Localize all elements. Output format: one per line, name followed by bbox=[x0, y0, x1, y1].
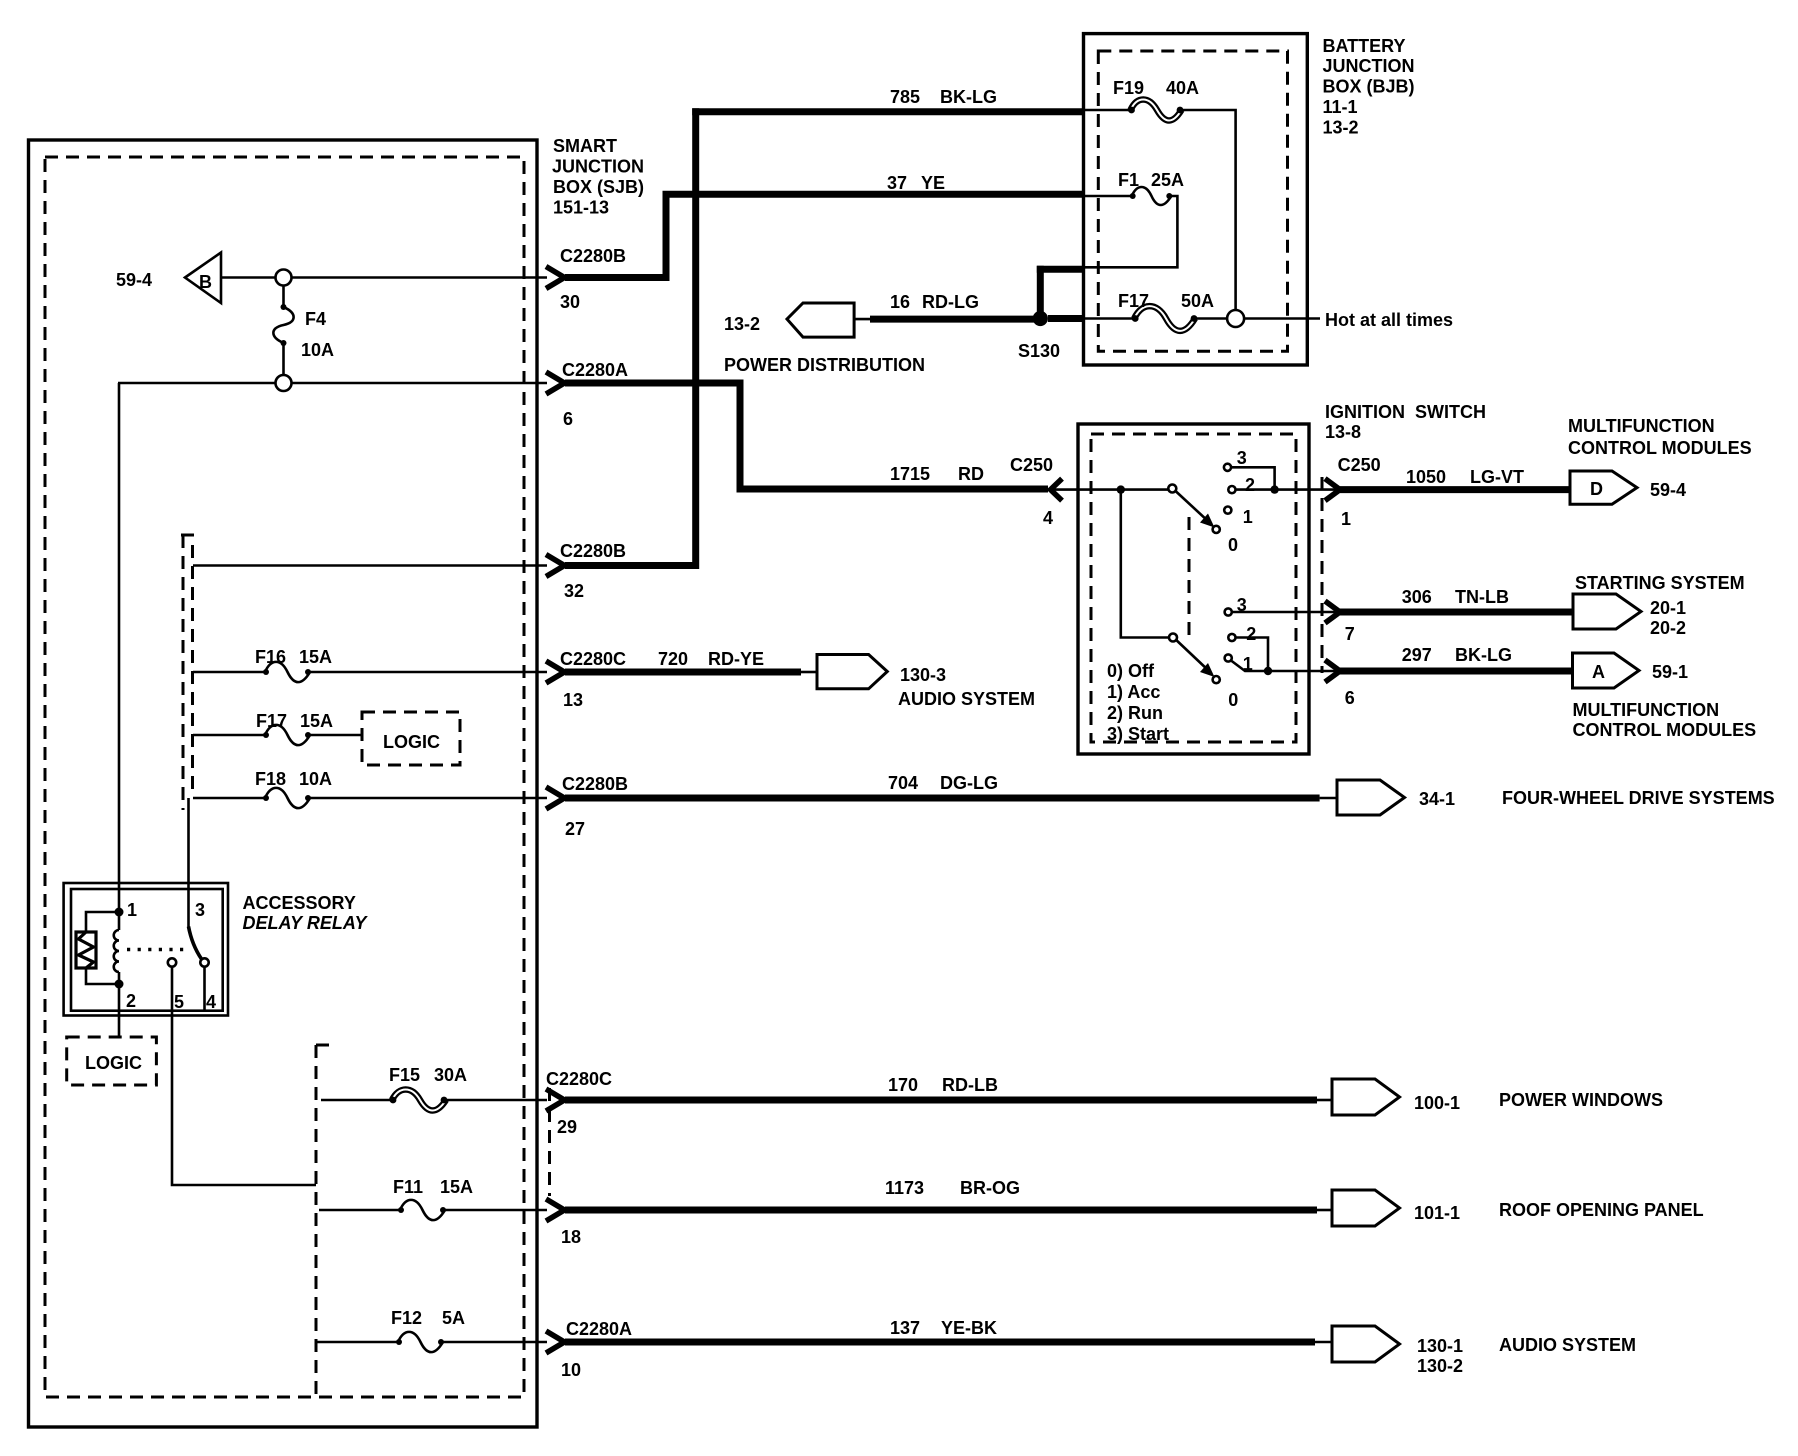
svg-text:F17: F17 bbox=[1118, 291, 1149, 311]
svg-text:LOGIC: LOGIC bbox=[383, 732, 440, 752]
wire S130 to BJB F1 return bbox=[1037, 266, 1084, 319]
svg-text:151-13: 151-13 bbox=[553, 198, 609, 218]
fuse F12 5A bbox=[316, 1308, 547, 1352]
BJB label bbox=[1323, 36, 1415, 138]
ignition switch outer box bbox=[1078, 424, 1309, 754]
svg-text:170: 170 bbox=[888, 1075, 918, 1095]
svg-text:Hot at all times: Hot at all times bbox=[1325, 310, 1453, 330]
svg-text:13-8: 13-8 bbox=[1325, 422, 1361, 442]
svg-text:3: 3 bbox=[195, 900, 205, 920]
ignition positions legend bbox=[1107, 661, 1169, 744]
svg-text:STARTING SYSTEM: STARTING SYSTEM bbox=[1575, 573, 1745, 593]
svg-text:704: 704 bbox=[888, 773, 918, 793]
svg-text:YE-BK: YE-BK bbox=[941, 1318, 997, 1338]
svg-text:1: 1 bbox=[1341, 509, 1351, 529]
SJB outer solid box bbox=[29, 140, 538, 1427]
svg-text:130-2: 130-2 bbox=[1417, 1356, 1463, 1376]
svg-text:2: 2 bbox=[1245, 475, 1255, 495]
svg-text:1715: 1715 bbox=[890, 464, 930, 484]
svg-text:1050: 1050 bbox=[1406, 467, 1446, 487]
upper contact 1 bbox=[1224, 507, 1253, 528]
connector 34-1 four wheel drive pentagon bbox=[1337, 780, 1775, 815]
connector C2280B pin 27 bbox=[546, 774, 628, 839]
svg-text:13-2: 13-2 bbox=[724, 314, 760, 334]
svg-text:F18: F18 bbox=[255, 769, 286, 789]
svg-text:C2280B: C2280B bbox=[562, 774, 628, 794]
svg-text:59-4: 59-4 bbox=[116, 270, 152, 290]
relay resistor branch bbox=[76, 912, 119, 984]
wire node to C2280B pin30 bbox=[292, 276, 548, 279]
svg-text:C2280C: C2280C bbox=[560, 649, 626, 669]
svg-text:C2280B: C2280B bbox=[560, 541, 626, 561]
wire hot at all times bbox=[1244, 310, 1453, 330]
wire 37 YE thick bbox=[565, 173, 1084, 281]
connector 101-1 roof opening panel pentagon bbox=[1332, 1190, 1704, 1226]
svg-text:LG-VT: LG-VT bbox=[1470, 467, 1524, 487]
wire 785 BK-LG thick bbox=[565, 87, 1084, 569]
svg-text:59-4: 59-4 bbox=[1650, 480, 1686, 500]
svg-text:C250: C250 bbox=[1338, 455, 1381, 475]
lower contact 2 bbox=[1228, 624, 1256, 644]
fuse F1 25A bbox=[1084, 170, 1184, 205]
svg-text:RD-LG: RD-LG bbox=[922, 292, 979, 312]
svg-text:16: 16 bbox=[890, 292, 910, 312]
svg-text:F11: F11 bbox=[393, 1177, 423, 1197]
svg-text:3) Start: 3) Start bbox=[1107, 724, 1169, 744]
fuse F19 40A bbox=[1084, 78, 1199, 121]
lower contact 0 bbox=[1213, 676, 1239, 710]
wire 1173 BR-OG thick bbox=[565, 1178, 1332, 1210]
connector A pentagon bbox=[1573, 653, 1689, 688]
svg-text:1173: 1173 bbox=[885, 1178, 924, 1198]
connector pin 18 bbox=[546, 1199, 581, 1247]
wire 16 RD-LG thick bbox=[854, 292, 1036, 319]
svg-text:AUDIO SYSTEM: AUDIO SYSTEM bbox=[1499, 1335, 1636, 1355]
svg-text:32: 32 bbox=[564, 581, 584, 601]
SJB internal dashed bus lines bbox=[181, 535, 197, 810]
svg-text:BR-OG: BR-OG bbox=[960, 1178, 1020, 1198]
connector C2280C pin 29 bbox=[546, 1069, 612, 1196]
svg-text:JUNCTION: JUNCTION bbox=[1323, 56, 1415, 76]
svg-text:59-1: 59-1 bbox=[1652, 662, 1688, 682]
svg-text:LOGIC: LOGIC bbox=[85, 1053, 142, 1073]
svg-text:S130: S130 bbox=[1018, 341, 1060, 361]
svg-text:297: 297 bbox=[1402, 645, 1432, 665]
svg-text:720: 720 bbox=[658, 649, 688, 669]
fuse F18 10A bbox=[193, 769, 547, 808]
svg-text:CONTROL MODULES: CONTROL MODULES bbox=[1573, 720, 1757, 740]
svg-text:B: B bbox=[199, 272, 212, 292]
svg-text:7: 7 bbox=[1345, 624, 1355, 644]
svg-text:RD-LB: RD-LB bbox=[942, 1075, 998, 1095]
svg-text:20-2: 20-2 bbox=[1650, 618, 1686, 638]
LOGIC box upper bbox=[362, 712, 460, 765]
connector C250 entry bbox=[1010, 455, 1062, 528]
ring terminal bbox=[1227, 310, 1244, 327]
svg-text:SMART: SMART bbox=[553, 136, 617, 156]
svg-text:FOUR-WHEEL DRIVE SYSTEMS: FOUR-WHEEL DRIVE SYSTEMS bbox=[1502, 788, 1775, 808]
battery junction box inner dashed bbox=[1098, 51, 1287, 351]
svg-text:ACCESSORY: ACCESSORY bbox=[243, 893, 356, 913]
connector C2280B pin 32 bbox=[546, 541, 626, 601]
svg-text:MULTIFUNCTION: MULTIFUNCTION bbox=[1573, 700, 1720, 720]
SJB inner dashed box bbox=[45, 157, 524, 1397]
connector triangle B bbox=[185, 253, 221, 304]
svg-text:100-1: 100-1 bbox=[1414, 1093, 1460, 1113]
svg-text:DG-LG: DG-LG bbox=[940, 773, 998, 793]
svg-text:C2280A: C2280A bbox=[566, 1319, 632, 1339]
connector C2280A pin 6 bbox=[546, 360, 628, 429]
wire 306 TN-LB thick bbox=[1340, 587, 1576, 612]
svg-text:IGNITION SWITCH: IGNITION SWITCH bbox=[1325, 402, 1486, 422]
wire relay pin2 to LOGIC bbox=[118, 984, 121, 1037]
wire F18 junction down to relay pin 3 bbox=[187, 798, 190, 927]
svg-text:15A: 15A bbox=[300, 711, 333, 731]
wire contact2 out bbox=[1236, 488, 1341, 491]
svg-text:ROOF OPENING PANEL: ROOF OPENING PANEL bbox=[1499, 1200, 1704, 1220]
wire vertical to relay pin 1 bbox=[118, 383, 121, 912]
svg-text:A: A bbox=[1592, 662, 1605, 682]
svg-text:5: 5 bbox=[174, 992, 184, 1012]
lower switch arm bbox=[1176, 640, 1214, 677]
svg-text:3: 3 bbox=[1237, 448, 1247, 468]
fuse group dashed box bbox=[316, 1045, 330, 1395]
SJB label bbox=[552, 136, 644, 218]
svg-text:C2280A: C2280A bbox=[562, 360, 628, 380]
lower contact 3 bbox=[1225, 595, 1247, 616]
splice S130 bbox=[1018, 311, 1060, 361]
connector C250 exit bbox=[1325, 455, 1381, 529]
fuse F15 30A bbox=[321, 1065, 547, 1111]
wire to C2280B pin 32 bbox=[193, 564, 547, 567]
svg-text:0: 0 bbox=[1228, 690, 1238, 710]
svg-text:137: 137 bbox=[890, 1318, 920, 1338]
wire relay pin5 to fuse group bbox=[172, 967, 316, 1185]
connector D pentagon bbox=[1570, 471, 1686, 504]
svg-text:BK-LG: BK-LG bbox=[940, 87, 997, 107]
svg-text:F17: F17 bbox=[256, 711, 287, 731]
junction dot contact2 bus bbox=[1270, 485, 1278, 493]
ignition switch internal dashed divider bbox=[1188, 517, 1191, 635]
svg-text:TN-LB: TN-LB bbox=[1455, 587, 1509, 607]
connector C2280C pin 13 bbox=[546, 649, 626, 710]
svg-text:29: 29 bbox=[557, 1117, 577, 1137]
power distribution connector pentagon bbox=[724, 303, 925, 375]
svg-text:AUDIO SYSTEM: AUDIO SYSTEM bbox=[898, 689, 1035, 709]
wire 170 RD-LB thick bbox=[565, 1075, 1332, 1100]
svg-text:F15: F15 bbox=[389, 1065, 420, 1085]
ignition switch label bbox=[1325, 402, 1486, 442]
multifunction control modules label top bbox=[1568, 416, 1752, 458]
wire F19 to ring terminal bbox=[1182, 110, 1236, 310]
starting system connector pentagon bbox=[1573, 594, 1686, 638]
svg-text:2: 2 bbox=[126, 991, 136, 1011]
connector 130-3 audio system pentagon bbox=[817, 655, 1035, 710]
svg-text:POWER WINDOWS: POWER WINDOWS bbox=[1499, 1090, 1663, 1110]
LOGIC box lower bbox=[67, 1037, 157, 1085]
connector 130-1 130-2 audio system pentagon bbox=[1332, 1326, 1636, 1376]
svg-text:18: 18 bbox=[561, 1227, 581, 1247]
relay pin 1 bbox=[115, 900, 138, 920]
svg-text:F12: F12 bbox=[391, 1308, 422, 1328]
wire 1715 RD thick bbox=[565, 380, 1048, 490]
upper switch pivot bbox=[1168, 485, 1176, 493]
relay pin 3 and arm bbox=[189, 900, 206, 959]
svg-text:10A: 10A bbox=[299, 769, 332, 789]
svg-text:1: 1 bbox=[127, 900, 137, 920]
svg-text:BOX (SJB): BOX (SJB) bbox=[553, 177, 644, 197]
svg-text:BK-LG: BK-LG bbox=[1455, 645, 1512, 665]
svg-text:0: 0 bbox=[1228, 535, 1238, 555]
svg-text:11-1: 11-1 bbox=[1323, 97, 1358, 117]
svg-text:37: 37 bbox=[887, 173, 907, 193]
fuse F11 15A bbox=[319, 1177, 547, 1220]
svg-text:6: 6 bbox=[1345, 688, 1355, 708]
svg-text:5A: 5A bbox=[442, 1308, 465, 1328]
svg-text:25A: 25A bbox=[1151, 170, 1184, 190]
wire lower contact1 out bbox=[1231, 661, 1340, 676]
svg-text:BATTERY: BATTERY bbox=[1323, 36, 1406, 56]
upper contact 2 bbox=[1228, 475, 1255, 495]
fuse F4 10A bbox=[273, 286, 334, 376]
relay pin 4 bbox=[200, 958, 216, 1012]
pin 6 exit bbox=[1325, 660, 1355, 708]
wire 720 RD-YE thick bbox=[565, 649, 817, 672]
svg-text:1: 1 bbox=[1243, 507, 1253, 527]
svg-text:C2280C: C2280C bbox=[546, 1069, 612, 1089]
svg-text:POWER DISTRIBUTION: POWER DISTRIBUTION bbox=[724, 355, 925, 375]
svg-text:20-1: 20-1 bbox=[1650, 598, 1686, 618]
svg-text:F16: F16 bbox=[255, 647, 286, 667]
svg-text:DELAY RELAY: DELAY RELAY bbox=[243, 913, 369, 933]
connector C2280A pin 10 bbox=[546, 1319, 632, 1380]
wire into switch bbox=[1051, 488, 1169, 491]
svg-text:306: 306 bbox=[1402, 587, 1432, 607]
connector C250 right dashed bbox=[1321, 477, 1324, 673]
wire triangle B to node bbox=[221, 276, 276, 279]
lower contact 1 bbox=[1225, 654, 1253, 674]
svg-text:CONTROL MODULES: CONTROL MODULES bbox=[1568, 438, 1752, 458]
svg-text:50A: 50A bbox=[1181, 291, 1214, 311]
wire 704 DG-LG thick bbox=[565, 773, 1337, 798]
upper contact 0 bbox=[1213, 526, 1238, 555]
relay actuation dotted link bbox=[127, 948, 184, 951]
wire C2280A pin6 horizontal bbox=[118, 382, 547, 385]
svg-text:RD: RD bbox=[958, 464, 984, 484]
svg-text:785: 785 bbox=[890, 87, 920, 107]
svg-text:10A: 10A bbox=[301, 340, 334, 360]
svg-text:30A: 30A bbox=[434, 1065, 467, 1085]
feed wire down to lower switch bbox=[1121, 490, 1169, 638]
wire contact3 to bus bbox=[1231, 467, 1275, 489]
node circle bottom of F4 bbox=[276, 375, 292, 391]
svg-text:130-1: 130-1 bbox=[1417, 1336, 1463, 1356]
wire 297 BK-LG thick bbox=[1340, 645, 1572, 671]
svg-text:101-1: 101-1 bbox=[1414, 1203, 1460, 1223]
svg-text:40A: 40A bbox=[1166, 78, 1199, 98]
junction dot feed bbox=[1117, 485, 1125, 493]
fuse F17 50A bbox=[1084, 291, 1227, 331]
svg-text:D: D bbox=[1590, 479, 1603, 499]
fuse F17 15A bbox=[193, 711, 362, 745]
svg-text:13: 13 bbox=[563, 690, 583, 710]
svg-text:F4: F4 bbox=[305, 309, 326, 329]
wire F1 return loop bbox=[1084, 196, 1178, 267]
svg-text:2) Run: 2) Run bbox=[1107, 703, 1163, 723]
svg-text:30: 30 bbox=[560, 292, 580, 312]
wire 1050 LG-VT thick bbox=[1340, 467, 1572, 490]
wire S130 to BJB F17 bbox=[1048, 315, 1084, 322]
wire lower contact2 to bus bbox=[1236, 638, 1269, 672]
connector C2280B pin 30 bbox=[546, 246, 626, 312]
svg-text:YE: YE bbox=[921, 173, 945, 193]
svg-text:BOX (BJB): BOX (BJB) bbox=[1323, 77, 1415, 97]
svg-text:15A: 15A bbox=[299, 647, 332, 667]
lower switch pivot bbox=[1169, 634, 1177, 642]
svg-text:130-3: 130-3 bbox=[900, 665, 946, 685]
svg-text:13-2: 13-2 bbox=[1323, 118, 1359, 138]
connector 100-1 power windows pentagon bbox=[1332, 1079, 1663, 1115]
pin 7 exit bbox=[1325, 601, 1355, 644]
svg-text:C2280B: C2280B bbox=[560, 246, 626, 266]
svg-text:0) Off: 0) Off bbox=[1107, 661, 1155, 681]
svg-text:C250: C250 bbox=[1010, 455, 1053, 475]
svg-text:6: 6 bbox=[563, 409, 573, 429]
fuse F16 15A bbox=[193, 647, 547, 682]
svg-text:F1: F1 bbox=[1118, 170, 1139, 190]
svg-text:27: 27 bbox=[565, 819, 585, 839]
svg-text:2: 2 bbox=[1246, 624, 1256, 644]
upper switch arm bbox=[1176, 491, 1215, 528]
wire lower contact3 out bbox=[1232, 611, 1340, 614]
svg-text:34-1: 34-1 bbox=[1419, 789, 1455, 809]
svg-text:MULTIFUNCTION: MULTIFUNCTION bbox=[1568, 416, 1715, 436]
ignition switch inner dashed box bbox=[1091, 434, 1296, 742]
battery junction box outer bbox=[1084, 34, 1308, 365]
svg-text:F19: F19 bbox=[1113, 78, 1144, 98]
node circle top of F4 bbox=[276, 270, 292, 286]
multifunction control modules label bottom bbox=[1573, 700, 1757, 740]
relay label bbox=[243, 893, 369, 933]
relay pin 5 bbox=[168, 958, 184, 1012]
svg-text:10: 10 bbox=[561, 1360, 581, 1380]
upper contact 3 bbox=[1224, 448, 1247, 471]
accessory delay relay bbox=[64, 883, 228, 1016]
svg-text:4: 4 bbox=[206, 992, 216, 1012]
relay coil bbox=[114, 912, 119, 984]
svg-text:JUNCTION: JUNCTION bbox=[552, 157, 644, 177]
svg-text:4: 4 bbox=[1043, 508, 1053, 528]
svg-text:1) Acc: 1) Acc bbox=[1107, 682, 1160, 702]
svg-text:15A: 15A bbox=[440, 1177, 473, 1197]
wire 137 YE-BK thick bbox=[565, 1318, 1332, 1342]
relay pin 2 bbox=[115, 980, 137, 1012]
svg-text:RD-YE: RD-YE bbox=[708, 649, 764, 669]
